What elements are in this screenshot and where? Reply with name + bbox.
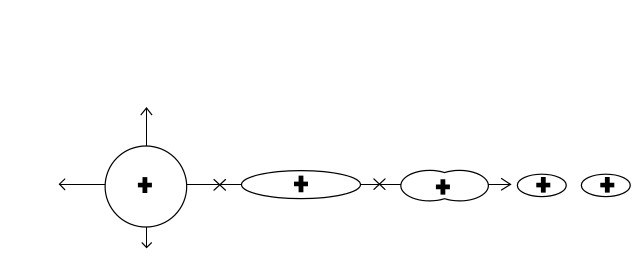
right arrow wire — [488, 184, 510, 186]
plus sign in charge circle — [138, 177, 152, 193]
peanut shape (two merged ellipses) — [401, 170, 489, 200]
x mark 2 — [374, 179, 385, 190]
right arrowhead — [502, 179, 511, 191]
ellipse 1 (wide) — [242, 171, 361, 199]
up arrow wire — [146, 108, 148, 146]
ellipse 3 (small) — [581, 174, 630, 196]
left arrowhead — [60, 179, 65, 190]
plus sign in peanut — [436, 179, 450, 194]
ellipse 2 (small) — [517, 174, 566, 196]
down arrow wire — [146, 227, 148, 248]
plus sign in ellipse 1 — [294, 176, 308, 193]
left arrow wire — [60, 184, 106, 186]
wire ellipse 1 to peanut — [361, 184, 401, 186]
wire circle to ellipse 1 — [187, 184, 242, 186]
plus sign in ellipse 3 — [600, 177, 614, 193]
plus sign in ellipse 2 — [536, 177, 550, 193]
charge circle — [105, 146, 187, 227]
down arrowhead — [142, 243, 151, 248]
x mark 1 — [214, 180, 226, 191]
up arrowhead — [141, 108, 152, 115]
